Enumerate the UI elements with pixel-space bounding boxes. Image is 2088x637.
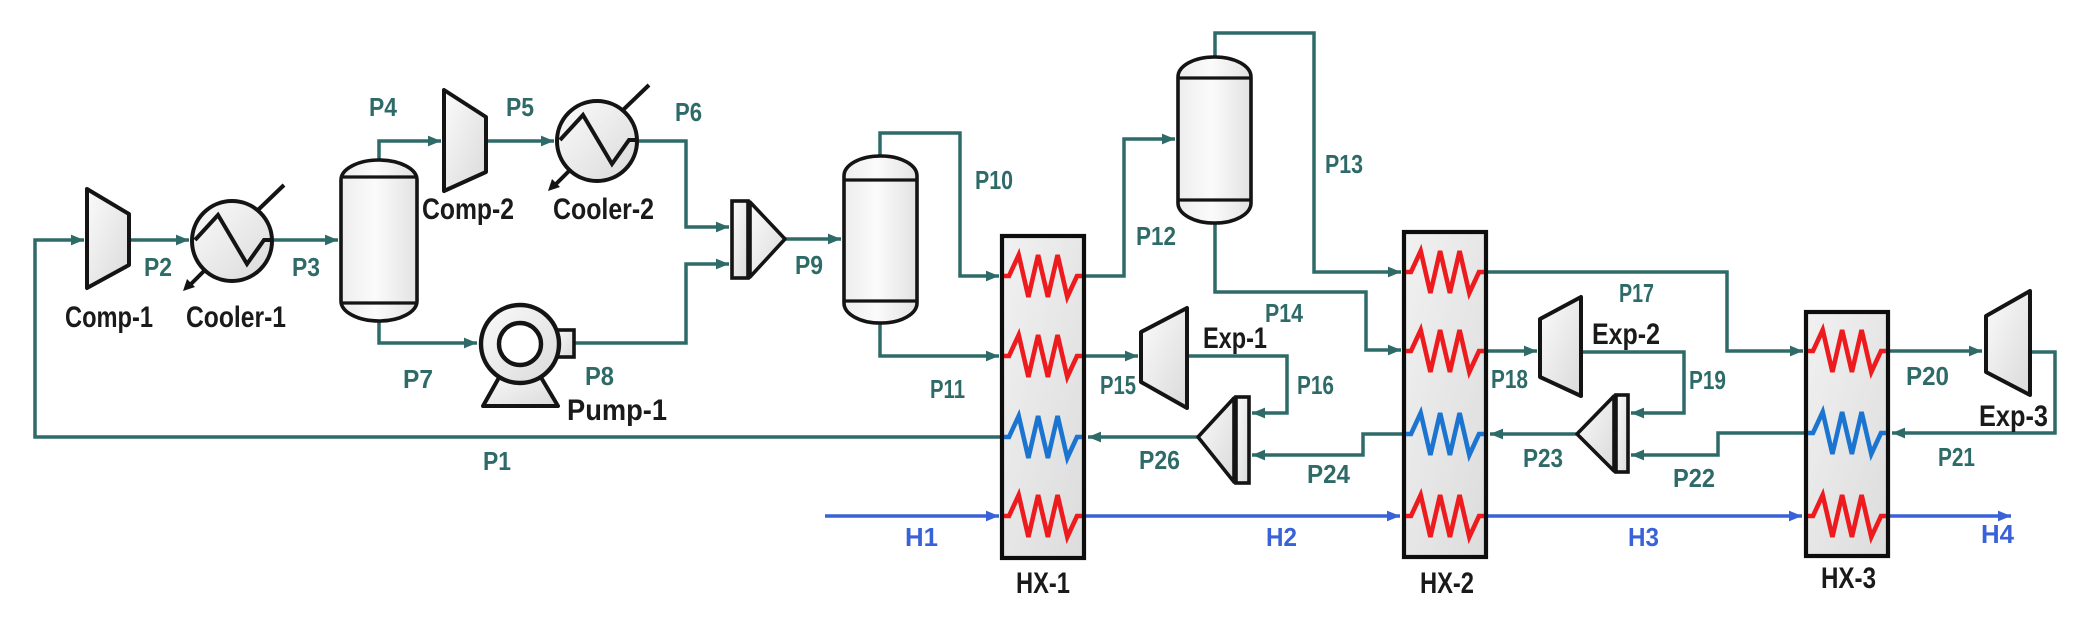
- stream P8: [574, 264, 729, 343]
- stream P1 recycle: [35, 240, 1003, 437]
- stream P7: [379, 319, 477, 343]
- svg-text:P22: P22: [1673, 463, 1715, 493]
- svg-text:P6: P6: [675, 97, 702, 127]
- svg-text:P24: P24: [1307, 459, 1350, 489]
- svg-text:P10: P10: [975, 165, 1013, 195]
- svg-text:P18: P18: [1491, 364, 1528, 394]
- svg-text:P11: P11: [930, 374, 965, 404]
- expander Exp-1: [1141, 308, 1187, 408]
- svg-text:H1: H1: [905, 522, 938, 552]
- stream P24: [1252, 434, 1405, 455]
- svg-text:P5: P5: [506, 92, 534, 122]
- stream P18: [1486, 349, 1537, 353]
- separator V-3: [1178, 57, 1251, 223]
- svg-text:P23: P23: [1523, 443, 1563, 473]
- svg-text:P16: P16: [1297, 370, 1334, 400]
- svg-text:Cooler-2: Cooler-2: [553, 193, 654, 226]
- stream P6: [637, 141, 729, 227]
- stream P22: [1631, 433, 1807, 455]
- svg-text:P13: P13: [1325, 149, 1363, 179]
- stream P4: [379, 141, 441, 162]
- svg-text:P2: P2: [144, 252, 172, 282]
- svg-text:P7: P7: [403, 364, 433, 394]
- stream P15: [1084, 354, 1138, 358]
- stream P9: [785, 237, 841, 241]
- svg-text:P3: P3: [292, 252, 320, 282]
- stream P17: [1486, 272, 1803, 351]
- stream P21: [1892, 352, 2055, 433]
- separator V-1: [341, 160, 417, 321]
- svg-text:P26: P26: [1139, 445, 1180, 475]
- svg-text:P17: P17: [1619, 278, 1654, 308]
- mixer M-2: [1198, 397, 1249, 483]
- expander Exp-2: [1540, 297, 1581, 396]
- separator V-2: [844, 156, 917, 323]
- svg-text:Comp-2: Comp-2: [422, 193, 514, 226]
- stream P20: [1889, 349, 1982, 353]
- svg-text:HX-1: HX-1: [1016, 567, 1070, 600]
- svg-text:P21: P21: [1938, 442, 1975, 472]
- stream H4 outlet: [1889, 514, 2011, 517]
- mixer M-1: [732, 201, 785, 278]
- stream H1 hot feed: [825, 514, 999, 517]
- stream P13: [1215, 33, 1401, 272]
- compressor Comp-2: [444, 90, 486, 191]
- svg-text:Pump-1: Pump-1: [567, 394, 667, 427]
- stream P3: [272, 238, 338, 242]
- stream P10: [880, 133, 999, 276]
- svg-text:H2: H2: [1266, 522, 1297, 552]
- stream P12: [1084, 139, 1175, 276]
- svg-text:P19: P19: [1689, 365, 1726, 395]
- svg-text:P8: P8: [585, 361, 614, 391]
- expander Exp-3: [1986, 291, 2030, 395]
- stream P16: [1187, 356, 1287, 413]
- svg-text:H4: H4: [1981, 519, 2015, 549]
- cooler Cooler-1: [183, 185, 284, 291]
- svg-text:HX-2: HX-2: [1420, 567, 1474, 600]
- svg-text:H3: H3: [1628, 522, 1659, 552]
- svg-text:HX-3: HX-3: [1821, 562, 1876, 595]
- stream P23: [1490, 432, 1576, 436]
- heat exchanger HX-1: [1002, 236, 1084, 558]
- stream P11: [880, 321, 999, 356]
- heat exchanger HX-2: [1404, 232, 1486, 557]
- stream P2: [129, 238, 189, 242]
- svg-text:Cooler-1: Cooler-1: [186, 301, 286, 334]
- stream H2: [1084, 514, 1400, 517]
- stream H3: [1486, 514, 1802, 517]
- stream P19: [1581, 352, 1684, 413]
- stream P26: [1088, 435, 1197, 439]
- pump Pump-1: [481, 305, 574, 406]
- svg-text:P15: P15: [1100, 370, 1136, 400]
- svg-text:P14: P14: [1265, 298, 1303, 328]
- stream P14: [1215, 221, 1401, 350]
- svg-text:P1: P1: [483, 446, 511, 476]
- svg-text:P20: P20: [1906, 361, 1949, 391]
- stream P5: [486, 139, 554, 143]
- svg-text:Comp-1: Comp-1: [65, 301, 153, 334]
- svg-text:Exp-2: Exp-2: [1592, 318, 1660, 351]
- svg-text:P12: P12: [1136, 221, 1176, 251]
- svg-text:P9: P9: [795, 250, 823, 280]
- heat exchanger HX-3: [1806, 312, 1888, 556]
- svg-text:Exp-1: Exp-1: [1203, 322, 1267, 355]
- svg-text:P4: P4: [369, 92, 397, 122]
- svg-text:Exp-3: Exp-3: [1979, 400, 2048, 433]
- cooler Cooler-2: [548, 85, 649, 191]
- mixer M-3: [1577, 395, 1628, 472]
- compressor Comp-1: [87, 189, 129, 288]
